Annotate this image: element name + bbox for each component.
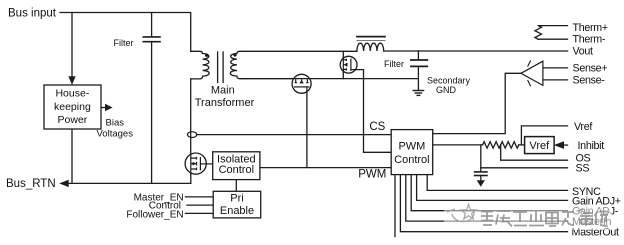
svg-text:PWM: PWM (398, 141, 425, 153)
svg-text:Secondary: Secondary (427, 76, 471, 86)
svg-text:Filter: Filter (114, 38, 134, 48)
svg-text:Pri: Pri (230, 193, 243, 205)
svg-text:Transformer: Transformer (195, 97, 255, 109)
svg-text:Main: Main (211, 85, 235, 97)
svg-text:Power: Power (58, 114, 88, 126)
svg-text:Control: Control (219, 164, 254, 176)
svg-text:GND: GND (436, 85, 457, 95)
svg-text:Voltages: Voltages (97, 129, 134, 140)
svg-text:CS: CS (369, 121, 385, 133)
svg-text:keeping: keeping (54, 101, 91, 113)
svg-text:Therm+: Therm+ (573, 22, 608, 34)
svg-text:PWM: PWM (358, 168, 386, 180)
svg-text:Sense-: Sense- (573, 75, 606, 87)
svg-text:Therm-: Therm- (573, 34, 606, 46)
svg-text:Bias: Bias (106, 118, 125, 129)
svg-text:Bus_RTN: Bus_RTN (6, 178, 56, 190)
svg-text:Follower_EN: Follower_EN (126, 209, 183, 220)
svg-text:Sense+: Sense+ (573, 63, 608, 75)
svg-text:Vref: Vref (574, 121, 592, 133)
svg-text:House-: House- (55, 88, 89, 100)
svg-text:Inhibit: Inhibit (578, 140, 605, 152)
svg-text:Enable: Enable (220, 205, 254, 217)
svg-text:Filter: Filter (384, 59, 404, 69)
svg-text:Bus input: Bus input (8, 8, 57, 20)
svg-text:Control: Control (394, 154, 429, 166)
svg-text:SS: SS (576, 162, 590, 174)
svg-text:Vref: Vref (529, 140, 550, 152)
svg-text:Vout: Vout (573, 46, 594, 58)
